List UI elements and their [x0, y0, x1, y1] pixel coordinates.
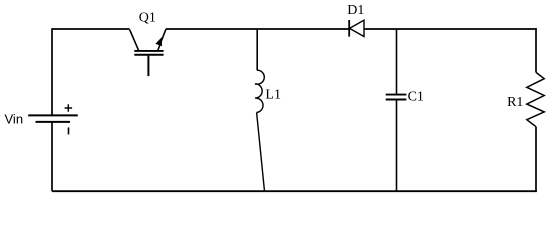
wire C1 upper lead	[396, 29, 398, 94]
voltage source Vin (battery bars)	[28, 104, 78, 134]
wire L1 top lead	[256, 29, 258, 70]
transistor Q1 (IGBT)	[130, 29, 166, 76]
wire left vertical upper (top wire to battery)	[51, 28, 53, 114]
svg-text:D1: D1	[347, 3, 364, 18]
svg-text:Vin: Vin	[5, 111, 24, 126]
capacitor C1	[386, 95, 407, 100]
wire top middle (Q1 emitter to D1 cathode)	[166, 28, 349, 30]
svg-text:R1: R1	[507, 95, 523, 110]
wire top right (D1 anode to R1 top)	[364, 28, 537, 30]
diode D1	[349, 20, 364, 37]
svg-text:C1: C1	[408, 89, 424, 104]
wire top-left (Vin+ to Q1 collector)	[52, 28, 130, 30]
wire left vertical lower (battery to bottom bus)	[51, 122, 53, 191]
wire C1 lower lead	[396, 101, 398, 192]
svg-text:L1: L1	[265, 87, 281, 102]
wire R1 lower lead	[535, 127, 537, 192]
wire L1 bottom lead	[257, 113, 265, 192]
wire R1 upper lead	[535, 28, 537, 72]
resistor R1 (zigzag)	[527, 72, 544, 126]
wire bottom bus	[52, 190, 537, 192]
inductor L1 (coil)	[255, 70, 264, 112]
svg-text:Q1: Q1	[139, 11, 156, 26]
